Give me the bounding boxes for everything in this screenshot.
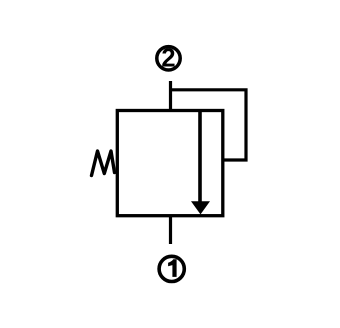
pilot line wire: [171, 90, 247, 160]
wire valve body to port 1: [169, 217, 172, 244]
port circle 1: [159, 256, 184, 281]
flow path line: [198, 112, 202, 202]
valve body box: [117, 111, 223, 216]
port circle 2: [157, 47, 180, 70]
wire port 2 to valve body: [169, 81, 172, 112]
svg-text:2: 2: [161, 45, 175, 73]
arrowhead: [191, 201, 210, 214]
spring: [92, 151, 115, 176]
port label 1: [168, 259, 177, 277]
